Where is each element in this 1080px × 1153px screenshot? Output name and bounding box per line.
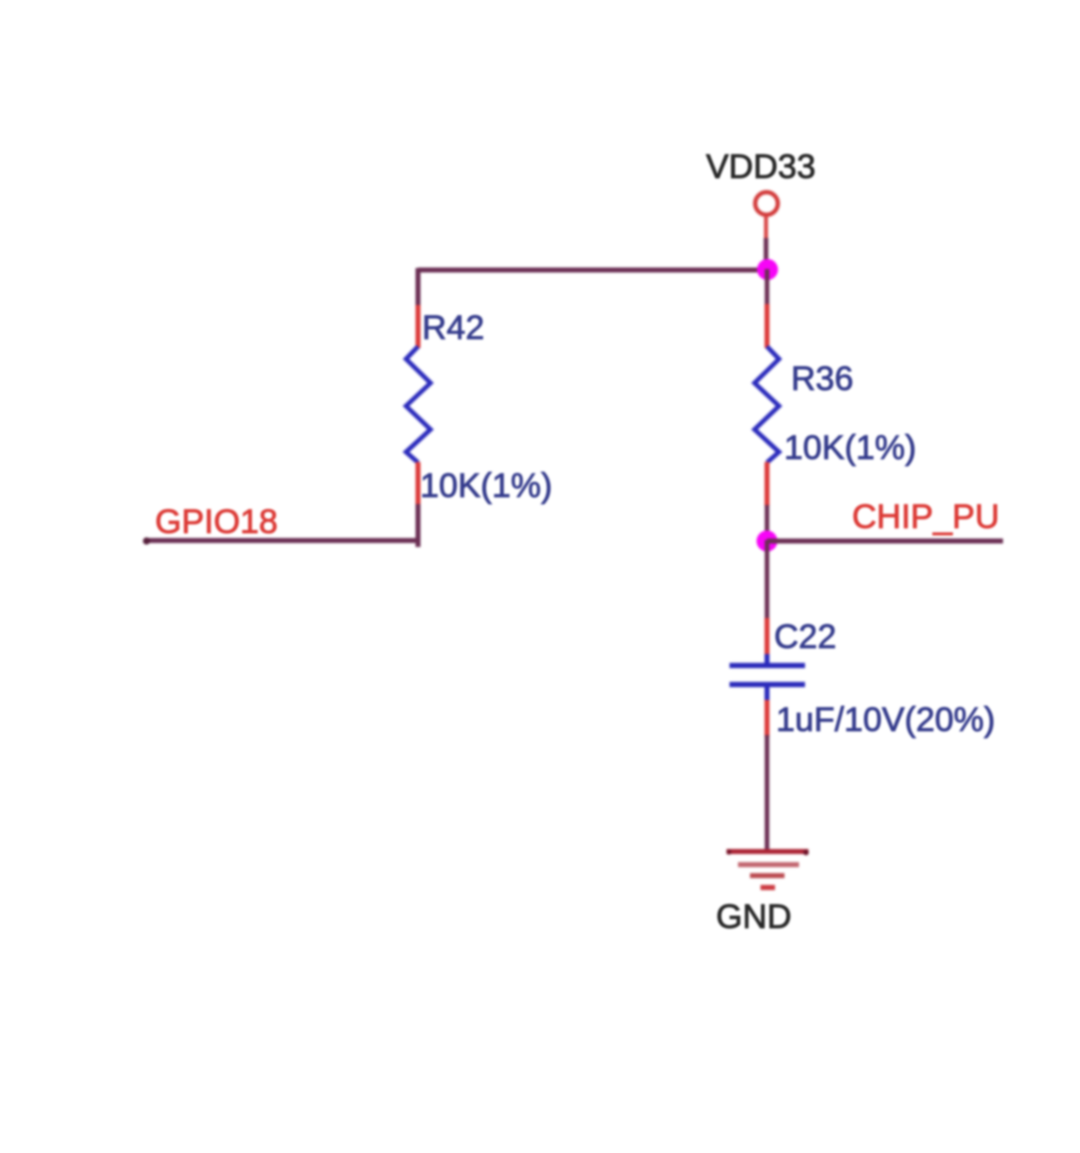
svg-text:VDD33: VDD33 <box>706 148 816 186</box>
pin 2 of C22 (red stub) <box>765 700 770 737</box>
pin 1 of C22 (red stub) <box>765 618 770 657</box>
ground symbol bar 1 <box>727 849 809 854</box>
wire right vertical (rail junction to R36 pin) <box>765 269 770 306</box>
resistor R36 body <box>755 347 780 463</box>
wire C22 to ground <box>765 735 770 851</box>
pin 2 of R42 (red stub) <box>416 462 421 505</box>
svg-text:C22: C22 <box>774 618 836 656</box>
wire R36 to CHIP_PU junction <box>765 505 770 541</box>
ground symbol bar 2 <box>738 862 799 867</box>
wire left vertical upper (rail to R42 pin) <box>416 268 421 306</box>
junction node at CHIP_PU <box>757 531 778 552</box>
ground symbol bar 3 <box>750 873 785 878</box>
svg-text:GND: GND <box>716 898 792 936</box>
svg-text:R42: R42 <box>422 309 484 347</box>
capacitor C22 bottom lead stub <box>765 684 770 701</box>
svg-text:1uF/10V(20%): 1uF/10V(20%) <box>776 701 995 739</box>
capacitor C22 top plate <box>730 663 806 668</box>
ground symbol bar 4 <box>761 885 776 890</box>
svg-text:R36: R36 <box>791 360 853 398</box>
GPIO18 wire left end cap <box>143 537 150 544</box>
capacitor C22 top lead stub <box>765 654 770 667</box>
resistor R42 body <box>406 347 431 463</box>
pin 2 of R36 (red stub) <box>765 462 770 506</box>
wire from VDD33 stub to top junction <box>764 238 769 270</box>
svg-text:10K(1%): 10K(1%) <box>784 429 916 467</box>
pin stub below VDD33 circle <box>764 216 768 240</box>
wire GPIO18 horizontal <box>145 538 418 543</box>
pin 1 of R42 (red stub) <box>416 305 421 348</box>
wire junction down to C22 <box>765 540 770 620</box>
wire CHIP_PU horizontal <box>767 539 1003 544</box>
svg-text:10K(1%): 10K(1%) <box>420 467 552 505</box>
junction node at VDD33 rail <box>757 259 778 280</box>
wire left vertical lower (R42 to GPIO18 wire) <box>416 504 421 547</box>
power symbol VDD33 circle <box>755 192 778 215</box>
ground symbol bar 1 end caps <box>726 849 731 854</box>
capacitor C22 bottom plate <box>730 682 806 687</box>
pin 1 of R36 (red stub) <box>765 304 770 348</box>
wire top horizontal VDD33 rail <box>418 268 767 273</box>
svg-text:CHIP_PU: CHIP_PU <box>852 498 999 536</box>
svg-text:GPIO18: GPIO18 <box>155 503 278 541</box>
